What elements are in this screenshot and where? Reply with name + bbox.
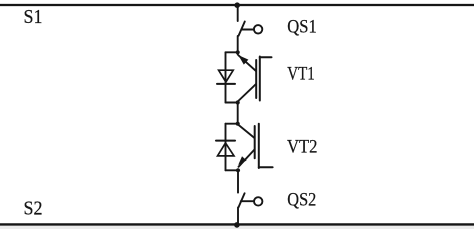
svg-text:QS1: QS1 <box>287 17 317 38</box>
svg-text:S2: S2 <box>24 198 43 220</box>
svg-text:S1: S1 <box>24 6 43 28</box>
svg-text:VT1: VT1 <box>287 64 315 85</box>
svg-text:VT2: VT2 <box>287 137 318 158</box>
svg-text:QS2: QS2 <box>287 190 316 211</box>
